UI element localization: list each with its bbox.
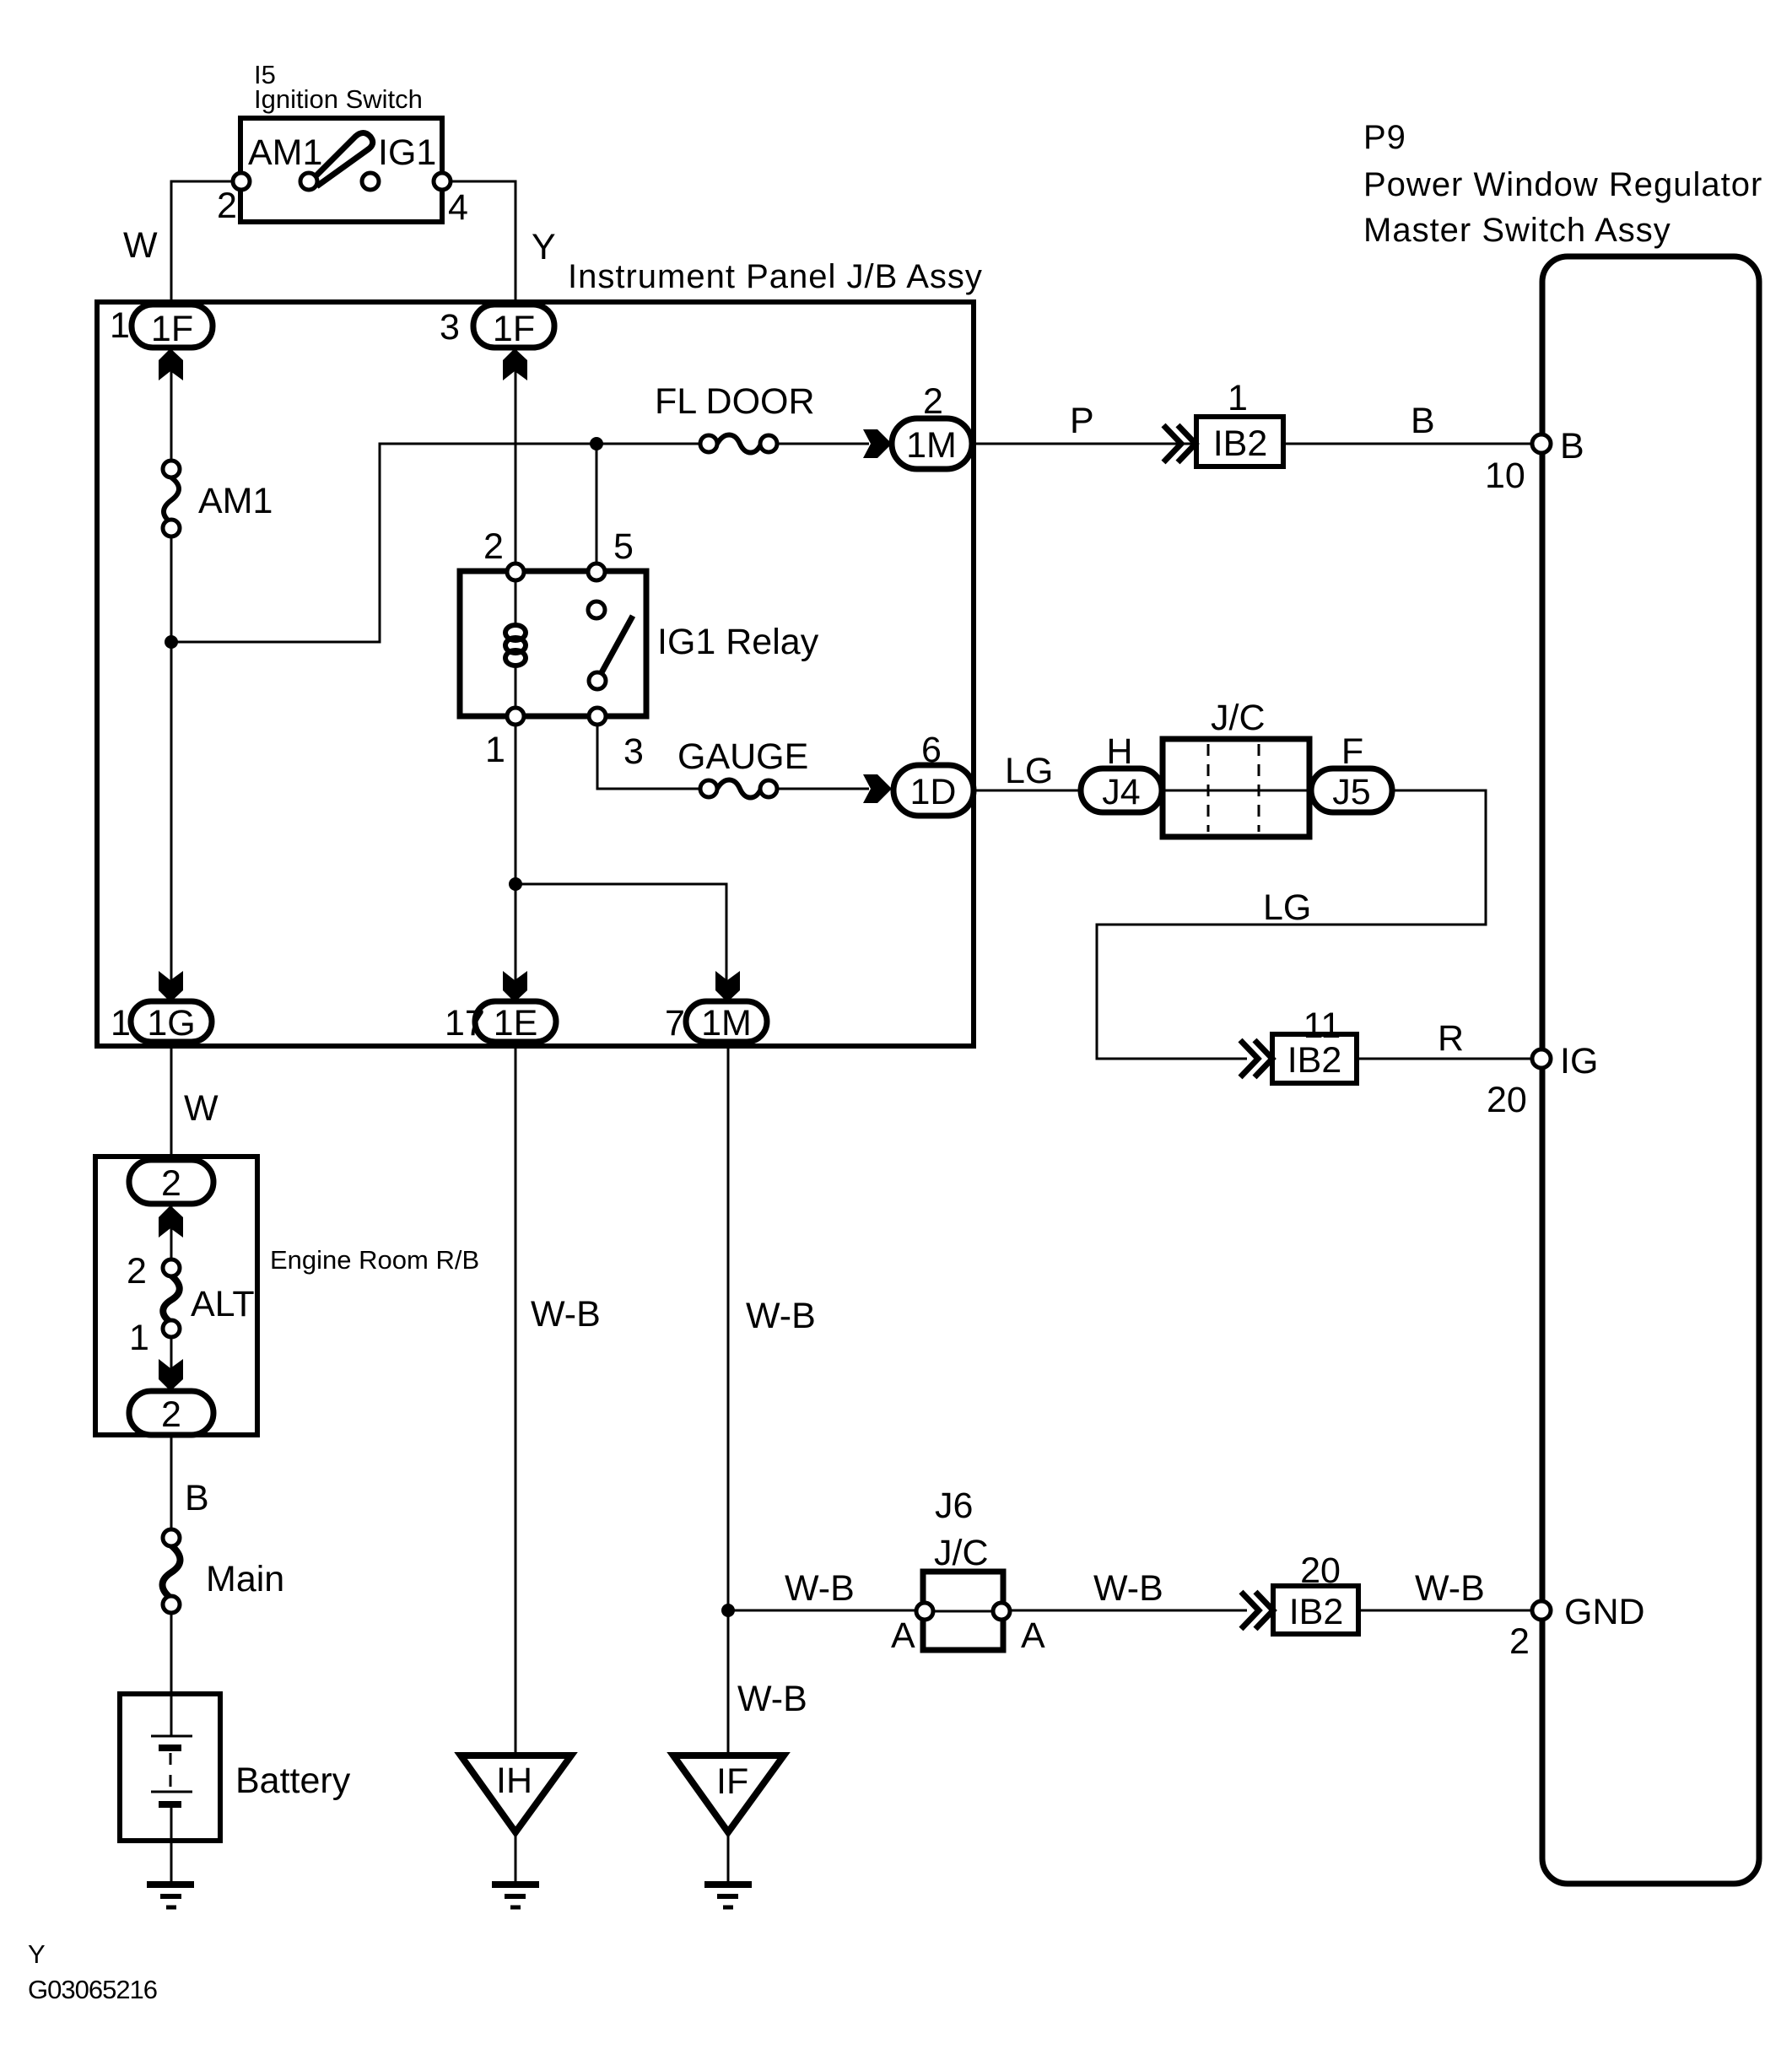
- svg-text:IG: IG: [1560, 1041, 1598, 1081]
- svg-text:3: 3: [623, 731, 644, 772]
- connector J5: [1311, 768, 1392, 812]
- svg-text:2: 2: [161, 1394, 181, 1435]
- svg-text:A: A: [1021, 1615, 1045, 1656]
- svg-text:R: R: [1438, 1018, 1464, 1059]
- svg-text:1M: 1M: [906, 425, 957, 466]
- ignition pin 2 contact: [233, 173, 250, 190]
- double chevron into IB2(11): [1240, 1040, 1272, 1077]
- relay switch arm: [600, 616, 633, 676]
- svg-text:W-B: W-B: [746, 1296, 816, 1336]
- terminal B circle: [1532, 434, 1551, 453]
- arrow up into 1F(3): [503, 348, 527, 380]
- wire junction to 1M(7): [515, 884, 726, 1006]
- relay pin 5: [588, 564, 605, 580]
- svg-text:AM1: AM1: [198, 481, 273, 521]
- svg-text:2: 2: [161, 1163, 181, 1204]
- svg-text:F: F: [1341, 731, 1363, 772]
- wire ignition pin4 to Y branch: [442, 181, 515, 306]
- junction dot relay1/1M: [509, 877, 522, 891]
- svg-text:1: 1: [110, 305, 130, 346]
- connector 1G pin1: [131, 1001, 212, 1042]
- connector J4: [1081, 768, 1162, 812]
- svg-text:17: 17: [445, 1003, 485, 1043]
- svg-text:GND: GND: [1564, 1592, 1645, 1632]
- svg-text:B: B: [1411, 401, 1435, 441]
- svg-text:W-B: W-B: [737, 1679, 807, 1719]
- wire junction to relay pin5: [596, 444, 598, 565]
- arrow down into 1E: [503, 971, 527, 1002]
- wire IB2(11) to terminal IG: [1357, 1058, 1532, 1060]
- svg-text:Engine Room R/B: Engine Room R/B: [270, 1245, 479, 1275]
- engine room R/B box: [95, 1157, 257, 1435]
- svg-text:W: W: [184, 1088, 219, 1129]
- relay contact upper: [588, 601, 605, 618]
- wire Main fusible link to battery: [170, 1610, 173, 1736]
- wire IF apex to ground: [727, 1832, 730, 1883]
- svg-text:Master Switch Assy: Master Switch Assy: [1363, 212, 1671, 249]
- svg-text:W-B: W-B: [1093, 1568, 1163, 1609]
- wire ALT fuse to R/B oval2 lower: [170, 1335, 173, 1393]
- svg-text:Battery: Battery: [235, 1761, 351, 1801]
- svg-text:Y: Y: [532, 227, 556, 267]
- svg-text:1F: 1F: [151, 309, 193, 349]
- svg-text:LG: LG: [1263, 887, 1311, 928]
- ignition switch lever: [313, 133, 373, 186]
- double chevron into IB2(1): [1163, 425, 1196, 462]
- svg-text:G03065216: G03065216: [28, 1975, 157, 2004]
- svg-text:LG: LG: [1005, 751, 1053, 791]
- svg-text:IG1: IG1: [378, 132, 436, 173]
- svg-text:1E: 1E: [494, 1003, 538, 1043]
- svg-text:FL DOOR: FL DOOR: [655, 381, 815, 422]
- svg-text:1: 1: [129, 1318, 149, 1358]
- ignition IG1 contact: [362, 173, 379, 190]
- arrow down in engine R/B: [159, 1359, 183, 1391]
- svg-text:J/C: J/C: [1211, 698, 1266, 738]
- svg-text:W-B: W-B: [785, 1568, 855, 1609]
- svg-text:IF: IF: [716, 1761, 748, 1802]
- svg-text:6: 6: [921, 730, 942, 770]
- double chevron into IB2(20): [1241, 1592, 1273, 1629]
- arrow down into 1G: [159, 971, 183, 1002]
- arrow up in engine R/B: [159, 1205, 183, 1238]
- terminal GND circle: [1532, 1601, 1551, 1620]
- ignition AM1 contact: [300, 173, 317, 190]
- arrow down into 1M(7): [715, 971, 740, 1002]
- svg-text:10: 10: [1485, 456, 1525, 496]
- wire W-B junction to J6: [728, 1610, 925, 1612]
- arrow up into 1F(1): [159, 348, 183, 380]
- IB2 box pin1: [1196, 417, 1283, 466]
- wire J5 to IB2(11) LG routing: [1097, 790, 1486, 1059]
- svg-text:2: 2: [127, 1251, 147, 1292]
- svg-text:3: 3: [440, 307, 460, 348]
- wire 1M(7) to IF: [727, 1048, 730, 1755]
- J/C junction connector box (J4/J5): [1163, 739, 1309, 837]
- P9 power window regulator master switch assy box: [1542, 256, 1759, 1884]
- wire IB2(20) to terminal GND: [1358, 1610, 1532, 1612]
- battery cell plates: [151, 1735, 192, 1738]
- svg-text:P: P: [1070, 401, 1094, 441]
- wire 1F(3) to relay pin2: [515, 348, 517, 565]
- svg-text:Main: Main: [206, 1559, 284, 1599]
- svg-text:P9: P9: [1363, 119, 1406, 156]
- relay pin 1: [507, 708, 524, 725]
- svg-text:J/C: J/C: [934, 1533, 989, 1573]
- svg-text:7: 7: [665, 1003, 685, 1043]
- svg-text:GAUGE: GAUGE: [677, 736, 808, 777]
- battery box: [120, 1694, 220, 1841]
- wire J6 to IB2(20): [1001, 1610, 1247, 1612]
- wire relay pin3 to GAUGE fuse: [597, 723, 701, 789]
- svg-text:1: 1: [485, 730, 505, 770]
- svg-text:1D: 1D: [910, 772, 957, 812]
- wire R/B oval2 to ALT fuse: [170, 1204, 173, 1262]
- svg-text:IB2: IB2: [1213, 423, 1268, 464]
- relay pin 2: [507, 564, 524, 580]
- svg-text:IG1 Relay: IG1 Relay: [657, 622, 819, 662]
- relay pin 3: [589, 708, 606, 725]
- connector 2 engine R/B bottom: [129, 1391, 213, 1435]
- relay contact lower: [589, 672, 606, 689]
- relay coil: [505, 580, 526, 709]
- fusible link Main: [163, 1545, 181, 1599]
- svg-text:W-B: W-B: [1415, 1568, 1485, 1609]
- svg-text:IB2: IB2: [1287, 1040, 1342, 1081]
- terminal IG circle: [1532, 1049, 1551, 1068]
- ground IF: [704, 1885, 752, 1907]
- wire ignition pin2 to W branch: [171, 181, 241, 306]
- svg-text:1: 1: [111, 1003, 131, 1043]
- junction dot W-B: [721, 1604, 735, 1617]
- solid arrow into 1M(2): [863, 429, 892, 458]
- svg-text:W: W: [123, 225, 158, 266]
- J6 J/C box: [923, 1572, 1003, 1650]
- svg-text:Instrument Panel J/B Assy: Instrument Panel J/B Assy: [568, 258, 983, 295]
- svg-text:20: 20: [1487, 1080, 1527, 1120]
- wire J4 to J5 through J/C: [1160, 790, 1313, 792]
- connector 1D pin6: [893, 765, 974, 816]
- wire GAUGE fuse to 1D arrow: [776, 788, 869, 790]
- IH ground triangle: [461, 1755, 571, 1832]
- svg-text:20: 20: [1300, 1550, 1341, 1591]
- connector 1F pin3: [473, 305, 554, 348]
- ignition switch I5 box: [240, 118, 442, 222]
- ground battery: [147, 1885, 194, 1907]
- IB2 box pin20: [1273, 1586, 1358, 1634]
- wire battery internal to ground: [170, 1804, 173, 1883]
- wire 1D to J4: [974, 790, 1082, 792]
- wire FL DOOR fuse to 1M arrow: [776, 443, 869, 445]
- svg-text:2: 2: [923, 381, 943, 422]
- svg-text:W-B: W-B: [531, 1294, 601, 1335]
- svg-text:Power Window Regulator: Power Window Regulator: [1363, 166, 1762, 203]
- instrument panel J/B assy box: [97, 302, 974, 1046]
- wire AM1 fuse to 1G: [170, 534, 173, 1006]
- svg-text:J4: J4: [1102, 772, 1140, 812]
- IB2 box pin11: [1272, 1034, 1357, 1083]
- svg-text:IB2: IB2: [1289, 1592, 1344, 1632]
- fuse GAUGE: [717, 780, 761, 798]
- svg-text:1G: 1G: [147, 1003, 195, 1043]
- svg-text:2: 2: [1509, 1621, 1530, 1662]
- fusible link ALT: [163, 1275, 180, 1323]
- svg-text:2: 2: [217, 186, 237, 226]
- IF ground triangle: [673, 1755, 784, 1832]
- svg-text:B: B: [185, 1478, 209, 1518]
- ground IH: [492, 1885, 539, 1907]
- svg-text:B: B: [1560, 426, 1584, 466]
- IG1 relay box: [460, 571, 646, 716]
- svg-text:1M: 1M: [701, 1003, 752, 1043]
- solid arrow into 1D: [863, 774, 892, 803]
- svg-text:ALT: ALT: [191, 1284, 255, 1324]
- svg-text:1: 1: [1228, 378, 1248, 418]
- ignition pin 4 contact: [434, 173, 451, 190]
- svg-text:1F: 1F: [493, 309, 535, 349]
- svg-text:Ignition Switch: Ignition Switch: [254, 84, 423, 114]
- wire IH apex to ground: [515, 1832, 517, 1883]
- connector 1M pin2: [892, 418, 972, 469]
- svg-text:4: 4: [448, 187, 468, 228]
- wire R/B to Main fusible link: [170, 1435, 173, 1532]
- wire relay pin1 to 1E: [515, 723, 517, 1006]
- fuse AM1: [164, 477, 179, 523]
- connector 1F pin1: [132, 305, 213, 348]
- svg-text:2: 2: [483, 526, 504, 567]
- fuse FL DOOR: [717, 435, 761, 453]
- connector 1E pin17: [475, 1001, 556, 1042]
- wire 1E to IH: [515, 1048, 517, 1755]
- svg-text:A: A: [891, 1615, 915, 1656]
- svg-text:Y: Y: [28, 1939, 46, 1969]
- wire 1M(2) to terminal B: [972, 443, 1532, 445]
- connector 1M pin7: [686, 1001, 767, 1042]
- wire 1G to engine room R/B: [170, 1048, 173, 1162]
- junction dot FL DOOR/relay5: [590, 437, 603, 450]
- svg-text:H: H: [1106, 731, 1132, 772]
- svg-text:5: 5: [613, 526, 634, 567]
- svg-text:AM1: AM1: [248, 132, 322, 173]
- svg-text:IH: IH: [496, 1761, 532, 1801]
- connector 2 engine R/B top: [129, 1160, 213, 1204]
- junction dot AM1 branch: [165, 635, 178, 649]
- wire 1F(1) to AM1 fuse: [170, 348, 173, 462]
- wire AM1 junction to FL DOOR row: [171, 444, 701, 642]
- svg-text:J6: J6: [935, 1486, 973, 1526]
- svg-text:J5: J5: [1332, 772, 1370, 812]
